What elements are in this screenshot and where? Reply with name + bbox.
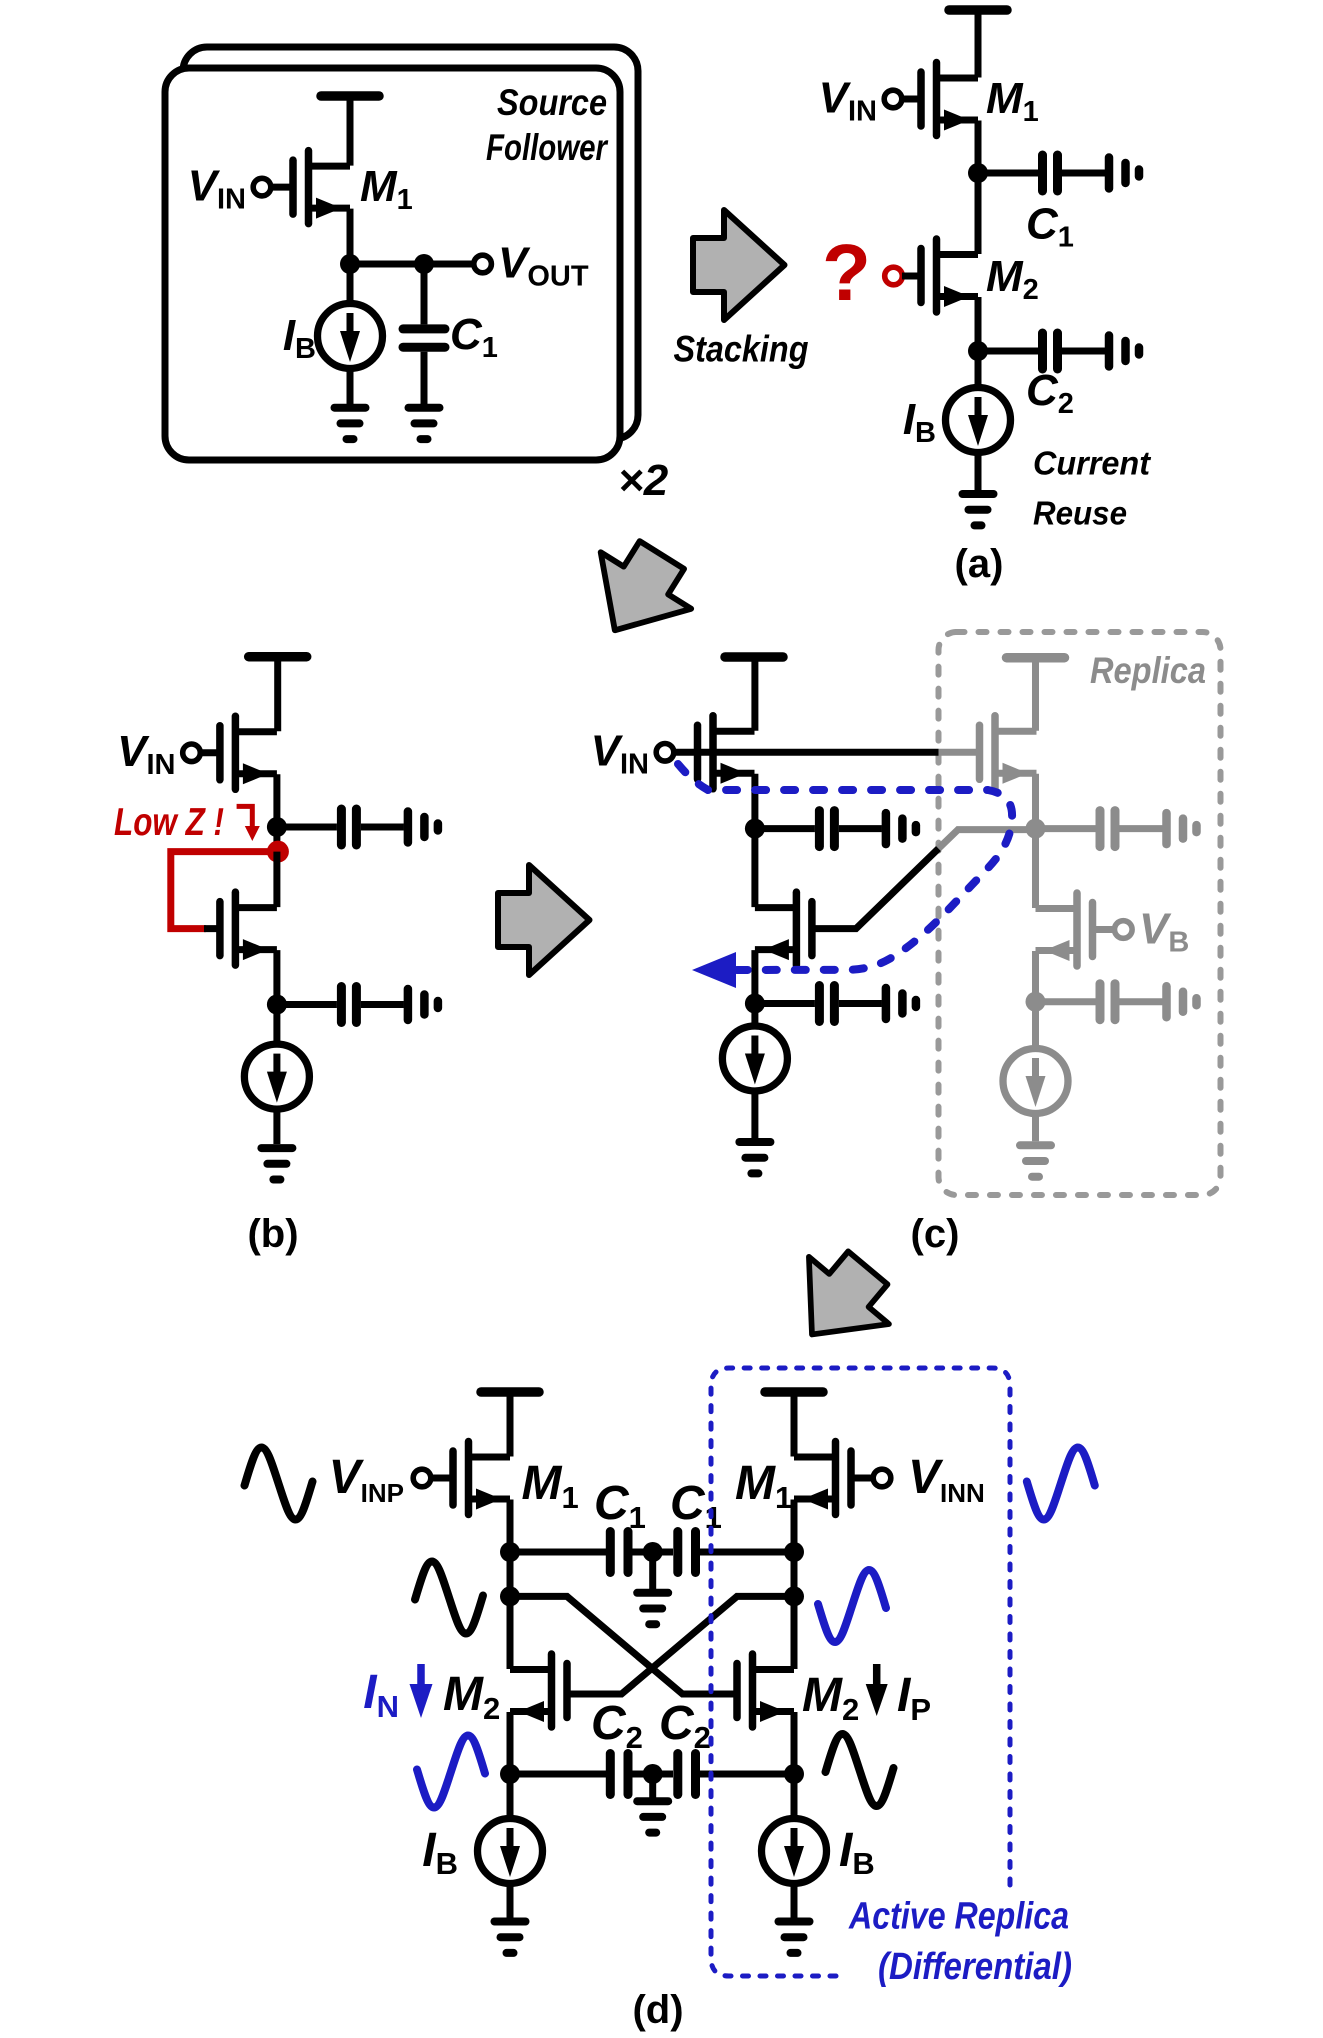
- wire M1 source to node 1 (c): [751, 774, 758, 829]
- replica wire VDD to M1r drain: [1032, 658, 1039, 731]
- capacitor to AC ground row 2 (b): [277, 987, 438, 1023]
- node dot 1 (b): [267, 817, 287, 837]
- input terminal VIN (c): [656, 744, 674, 762]
- replica wire current source to ground: [1032, 1113, 1039, 1141]
- svg-text:Current: Current: [1033, 444, 1152, 481]
- replica ground: [1020, 1145, 1051, 1176]
- wire C1 row right: [700, 1549, 794, 1556]
- sine wave blue at VINN: [1027, 1448, 1095, 1520]
- node dot C1 mid: [643, 1542, 663, 1562]
- wire node2R to M2R drain: [791, 1596, 798, 1669]
- ground (a): [963, 494, 994, 525]
- capacitor to AC ground row 1 (c): [755, 811, 916, 847]
- svg-text:Follower: Follower: [486, 127, 609, 168]
- capacitor C1 (box): [403, 329, 445, 347]
- wire node 1 to M2 drain (a): [975, 173, 982, 254]
- svg-text:Reuse: Reuse: [1033, 494, 1127, 531]
- wire M1R source to node 2R: [791, 1500, 798, 1597]
- node dot 2 (c): [745, 994, 765, 1014]
- capacitor C2 to AC ground (a): [978, 333, 1139, 369]
- wire node to capacitor C1: [421, 264, 428, 324]
- svg-text:(a): (a): [955, 542, 1004, 586]
- transistor M2 (b): [220, 892, 277, 965]
- wire M2 source to node 2 (b): [273, 950, 280, 1004]
- svg-text:Replica: Replica: [1090, 650, 1206, 691]
- block arrow down-left (a to b): [570, 527, 708, 659]
- replica capacitor to AC ground row 1: [1036, 811, 1197, 847]
- current source IB left (d): [478, 1819, 543, 1884]
- replica VB terminal: [1115, 921, 1133, 939]
- wire current source to ground right (d): [791, 1884, 798, 1918]
- red hook arrow: [237, 806, 260, 841]
- output terminal VOUT: [474, 255, 492, 273]
- wire current source to ground (c): [751, 1091, 758, 1139]
- wire diagonal gray part to replica node: [939, 830, 1036, 849]
- VDD supply bar (box): [321, 95, 379, 97]
- transistor M1 (a): [921, 63, 978, 136]
- wire node 1 to M2 drain (c): [751, 829, 758, 908]
- wire node 2 to current source (a): [975, 351, 982, 388]
- svg-text:Active Replica: Active Replica: [848, 1896, 1069, 1938]
- wire gate terminal to M2 gate (a): [902, 273, 922, 280]
- replica wire node R2 to current source: [1032, 1002, 1039, 1049]
- ground (below IB, box): [335, 408, 366, 439]
- wire node 3L to current source: [507, 1774, 514, 1819]
- svg-text:×2: ×2: [618, 456, 669, 505]
- VDD supply bar right (d): [765, 1391, 823, 1393]
- cross-couple wire node2R to M2L gate: [566, 1596, 794, 1694]
- wire VDD to M1 drain (a): [975, 10, 982, 78]
- sine wave blue mid-right: [818, 1570, 886, 1642]
- wire VDD to M1 drain (b): [274, 657, 281, 732]
- wire node 2 to current source (b): [273, 1005, 280, 1045]
- wire current source to ground (a): [975, 452, 982, 490]
- wire VINN to gate: [850, 1475, 873, 1482]
- wire output node row: [350, 261, 474, 268]
- wire C2 mid to ground: [649, 1774, 656, 1798]
- wire node2L to M2L drain: [507, 1596, 514, 1669]
- cross-couple wire node2L to M2R gate: [510, 1596, 738, 1694]
- wire VDD to M1R drain: [791, 1392, 798, 1457]
- blue arrowhead of feedback path: [692, 952, 736, 988]
- red gate terminal of M2 (a): [885, 267, 903, 285]
- current source IB (a): [946, 388, 1011, 453]
- replica wire node R1 to M2r drain: [1032, 829, 1039, 908]
- block arrow down-right (c to d): [772, 1234, 908, 1368]
- blue dashed feedback path: [678, 764, 1012, 970]
- node dot 1 (a): [968, 163, 988, 183]
- wire capacitor to ground: [421, 352, 428, 404]
- svg-text:?: ?: [822, 228, 871, 317]
- wire C2 mid right: [657, 1771, 673, 1778]
- sine wave black at VINP: [245, 1448, 313, 1520]
- ground (c): [739, 1142, 770, 1173]
- wire VIN to gate (b): [200, 749, 221, 756]
- transistor M2 right (d): [737, 1654, 794, 1727]
- input terminal VINP: [413, 1469, 431, 1487]
- svg-text:(b): (b): [247, 1212, 298, 1256]
- wire gate stub M2 (b): [204, 925, 221, 932]
- replica current source: [1003, 1049, 1068, 1114]
- input terminal VINN: [873, 1469, 891, 1487]
- red wire node to M2 gate (diode connection): [171, 852, 272, 929]
- wire M2 source to node 2 (c): [751, 950, 758, 1003]
- replica dashed box: [939, 632, 1221, 1195]
- blue dashed box Active Replica: [711, 1368, 1010, 1976]
- ground right (d): [779, 1922, 810, 1953]
- node dot C2 mid: [643, 1764, 663, 1784]
- transistor M2 (c, mirrored): [755, 892, 812, 965]
- node dot at M1 source: [340, 254, 360, 274]
- current source IB (box): [318, 304, 383, 369]
- wire VDD to M1 drain (c): [751, 657, 758, 731]
- wire C2 mid left: [633, 1771, 649, 1778]
- svg-text:Stacking: Stacking: [674, 328, 809, 369]
- blue current arrow IN: [410, 1664, 433, 1718]
- wire M1 source to node 1 (a): [975, 121, 982, 174]
- current source IB right (d): [762, 1819, 827, 1884]
- wire C2 row right: [700, 1771, 794, 1778]
- ground (below C1, box): [409, 408, 440, 439]
- node dot 2R: [784, 1586, 804, 1606]
- input terminal VIN (a): [884, 90, 902, 108]
- replica transistor M1r: [980, 716, 1037, 789]
- transistor M1 left (d): [453, 1442, 510, 1515]
- wire M2 gate to replica node (black diagonal): [811, 849, 939, 929]
- svg-text:(Differential): (Differential): [878, 1946, 1072, 1988]
- input terminal VIN (box): [253, 178, 271, 196]
- svg-text:(d): (d): [632, 1988, 683, 2032]
- node dot 2 (a): [968, 341, 988, 361]
- replica wire M2r source to node R2: [1032, 951, 1039, 1002]
- replica wire M2r gate to VB terminal: [1091, 926, 1115, 933]
- node dot 1R: [784, 1542, 804, 1562]
- VDD supply bar (a): [949, 9, 1007, 11]
- wire M2L source to node 3L: [507, 1712, 514, 1774]
- node dot 3R: [784, 1764, 804, 1784]
- wire VDD to M1L drain: [507, 1392, 514, 1457]
- wire C1 mid left: [633, 1549, 649, 1556]
- transistor M1 (box): [293, 151, 350, 224]
- black current arrow IP: [866, 1664, 888, 1716]
- input terminal VIN (b): [183, 744, 201, 762]
- capacitor C2 right: [678, 1754, 696, 1795]
- ground (b): [261, 1148, 292, 1179]
- capacitor to AC ground row 1 (b): [277, 809, 438, 845]
- replica capacitor to AC ground row 2: [1036, 984, 1197, 1020]
- replica node dot R1: [1026, 819, 1046, 839]
- wire node 2 to current source (c): [751, 1004, 758, 1027]
- wire VIN to gate (a): [902, 96, 922, 103]
- sine wave black bottom-right: [826, 1734, 894, 1806]
- ground left (d): [495, 1922, 526, 1953]
- wire C1 row left: [510, 1549, 606, 1556]
- wire node to current source: [347, 264, 354, 304]
- sine wave black mid-left: [415, 1562, 483, 1634]
- wire current source to ground left (d): [507, 1884, 514, 1918]
- ground C2 mid: [637, 1801, 668, 1832]
- node dot 2L: [500, 1586, 520, 1606]
- capacitor to AC ground row 2 (c): [755, 986, 916, 1022]
- transistor M1 (b): [220, 716, 277, 789]
- wire M1 source to node: [347, 209, 354, 264]
- wire C1 mid right: [657, 1549, 673, 1556]
- node dot 3L: [500, 1764, 520, 1784]
- current source (b): [244, 1044, 309, 1109]
- source follower box: back card: [183, 47, 638, 439]
- capacitor C1 to AC ground (a): [978, 155, 1139, 191]
- svg-text:Low Z !: Low Z !: [114, 801, 224, 844]
- node dot at C1 tap: [414, 254, 434, 274]
- ground C1 mid: [637, 1593, 668, 1624]
- svg-text:(c): (c): [911, 1212, 960, 1256]
- VDD supply bar (b): [249, 656, 307, 658]
- block arrow Stacking: [693, 210, 785, 320]
- capacitor C1 left: [610, 1532, 628, 1573]
- replica wire M1r source to node R1: [1032, 774, 1039, 829]
- transistor M1 (c): [698, 716, 755, 789]
- wire VINP to gate: [431, 1475, 454, 1482]
- transistor M2 left (d, mirrored): [510, 1654, 567, 1727]
- svg-text:Source: Source: [497, 82, 607, 123]
- shared gate wire VIN to replica (black part): [674, 749, 939, 756]
- node dot 1L: [500, 1542, 520, 1562]
- capacitor C2 left: [610, 1754, 628, 1795]
- wire current source to ground: [347, 368, 354, 404]
- block arrow right (b to c): [498, 865, 590, 975]
- replica VDD supply bar: [1007, 657, 1065, 659]
- source follower box: front card: [165, 68, 620, 460]
- sine wave blue bottom-left: [417, 1736, 485, 1808]
- red node dot (low impedance node): [267, 841, 289, 863]
- wire node 1 to M2 drain (b): [273, 852, 280, 908]
- wire current source to ground (b): [273, 1109, 280, 1144]
- replica node dot R2: [1026, 992, 1046, 1012]
- replica transistor M2r (mirrored): [1036, 893, 1093, 966]
- wire C2 row left: [510, 1771, 606, 1778]
- current source (c): [722, 1026, 787, 1091]
- wire M1 source to node 1 (b): [273, 774, 280, 851]
- wire VDD to M1 drain: [347, 96, 354, 166]
- VDD supply bar left (d): [481, 1391, 539, 1393]
- VDD supply bar (c): [725, 656, 783, 658]
- wire M2 source to node 2 (a): [975, 297, 982, 351]
- shared gate wire (gray part in replica): [939, 749, 981, 756]
- wire M1L source to node 2L: [507, 1500, 514, 1597]
- wire node 3R to current source: [791, 1774, 798, 1819]
- transistor M2 (a): [921, 239, 978, 312]
- capacitor C1 right: [678, 1532, 696, 1573]
- node dot 1 (c): [745, 819, 765, 839]
- transistor M1 right (d, mirrored): [794, 1442, 851, 1515]
- wire C1 mid to ground: [649, 1552, 656, 1589]
- wire VIN to gate: [271, 184, 294, 191]
- node dot 2 (b): [267, 995, 287, 1015]
- wire M2R source to node 3R: [791, 1712, 798, 1774]
